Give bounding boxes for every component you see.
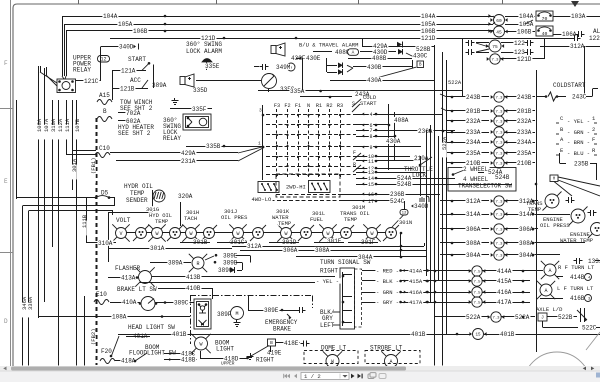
svg-text:2 WHEEL: 2 WHEEL [463,166,489,173]
svg-text:522A: 522A [466,314,481,321]
svg-text:306A: 306A [519,226,534,233]
svg-text:(FB1): (FB1) [90,157,97,174]
svg-text:389E: 389E [223,252,238,259]
svg-text:1: 1 [258,141,261,147]
svg-text:408A: 408A [394,117,409,124]
svg-text:N: N [307,103,310,109]
svg-text:312A: 312A [247,243,262,250]
svg-text:OIL PRESS: OIL PRESS [540,222,570,229]
svg-text:112A: 112A [57,118,64,132]
svg-text:RIGHT: RIGHT [256,357,274,364]
svg-text:LOCK: LOCK [412,172,427,179]
svg-text:12: 12 [100,57,106,63]
svg-text:RELAY: RELAY [163,135,181,142]
svg-text:15: 15 [368,182,374,188]
svg-text:1 / 2: 1 / 2 [304,373,321,380]
svg-text:7.3: 7.3 [495,132,503,136]
svg-text:A: A [352,50,355,56]
svg-text:V: V [119,231,122,237]
svg-text:121C: 121C [84,78,99,85]
svg-text:310A: 310A [98,240,113,247]
svg-text:335D: 335D [193,87,208,94]
svg-text:103A: 103A [571,13,586,20]
svg-text:W: W [236,231,239,237]
svg-text:A: A [389,359,392,365]
svg-text:414A: 414A [409,267,423,274]
svg-text:308A: 308A [466,240,481,247]
svg-text:306A: 306A [466,226,481,233]
svg-text:SEE SHT 2: SEE SHT 2 [118,130,151,137]
svg-text:304A: 304A [466,252,481,259]
svg-text:522A: 522A [441,136,448,150]
svg-text:GRY: GRY [322,315,333,322]
svg-text:312A: 312A [570,43,585,50]
svg-text:AXLE L/D: AXLE L/D [536,306,563,313]
svg-text:122B: 122B [589,35,600,42]
svg-text:243B: 243B [517,94,532,101]
svg-text:121D: 121D [421,35,436,42]
svg-text:414A: 414A [497,268,512,275]
svg-text:COLDSTART: COLDSTART [553,82,586,89]
svg-text:415A: 415A [409,278,423,285]
svg-text:7.5: 7.5 [473,271,481,275]
svg-text:TACH: TACH [184,215,197,222]
svg-text:107A: 107A [43,118,50,132]
svg-text:306A: 306A [283,247,298,254]
svg-text:- RED -: - RED - [376,267,399,274]
svg-text:104A: 104A [103,13,118,20]
svg-text:308A: 308A [519,240,534,247]
svg-text:108A: 108A [36,118,43,132]
svg-text:415A: 415A [497,278,512,285]
svg-text:121D: 121D [517,56,532,63]
svg-text:312A: 312A [466,198,481,205]
svg-text:335F: 335F [192,106,207,113]
svg-text:106B: 106B [517,29,532,36]
svg-text:418A: 418A [121,358,136,365]
svg-text:R F TURN LT: R F TURN LT [558,264,595,271]
svg-text:40: 40 [542,31,548,37]
svg-text:17: 17 [368,199,374,205]
svg-text:11: 11 [368,159,374,165]
svg-text:- BLU -: - BLU - [567,150,590,157]
svg-text:522C: 522C [582,325,597,332]
svg-text:- YEL -: - YEL - [316,278,339,285]
svg-text:HYDR OIL: HYDR OIL [124,183,153,190]
svg-text:F1: F1 [295,103,301,109]
svg-text:105A: 105A [421,21,436,28]
svg-text:SENDER: SENDER [126,197,148,204]
svg-text:7.3: 7.3 [491,59,499,63]
svg-text:105A: 105A [519,21,534,28]
svg-text:243C: 243C [572,94,587,101]
svg-text:TEMP: TEMP [344,216,357,223]
svg-text:7.3: 7.3 [492,317,500,321]
svg-text:BRAKE LT SW: BRAKE LT SW [117,286,157,293]
svg-text:524B: 524B [495,174,510,181]
svg-text:- BLK -: - BLK - [376,278,399,285]
svg-text:A: A [548,268,551,274]
svg-text:389A: 389A [168,260,183,267]
svg-text:389F: 389F [217,311,232,318]
svg-text:401B: 401B [500,331,515,338]
svg-text:45: 45 [496,29,502,35]
svg-text:R: R [353,162,356,168]
svg-text:522A: 522A [448,79,462,86]
svg-text:430B: 430B [367,64,382,71]
svg-text:F: F [353,150,356,156]
svg-text:- GRY -: - GRY - [376,299,399,306]
svg-text:430E: 430E [306,55,321,62]
svg-text:416B: 416B [570,295,585,302]
svg-text:304A: 304A [519,252,534,259]
svg-text:7.5: 7.5 [473,281,481,285]
svg-text:416A: 416A [497,289,512,296]
svg-text:LEFT: LEFT [320,322,335,329]
svg-text:524B: 524B [397,181,412,188]
svg-text:7.5: 7.5 [473,302,481,306]
svg-text:15: 15 [475,334,481,338]
svg-text:E10: E10 [96,291,107,298]
svg-text:7.3: 7.3 [495,243,503,247]
svg-text:416A: 416A [409,289,423,296]
svg-text:430A: 430A [386,138,401,145]
svg-text:B: B [103,108,107,115]
svg-text:360° SWING: 360° SWING [186,41,222,48]
svg-text:235B: 235B [574,160,589,167]
svg-text:524C: 524C [390,198,405,205]
svg-text:9: 9 [369,145,372,151]
svg-text:TEMP: TEMP [528,206,541,213]
svg-text:389A: 389A [152,82,167,89]
svg-text:AL: AL [593,28,600,35]
svg-text:301A: 301A [71,158,78,172]
svg-text:7.3: 7.3 [495,229,503,233]
svg-text:106B: 106B [133,28,148,35]
svg-text:F20: F20 [101,348,112,355]
svg-text:389C: 389C [174,300,189,307]
svg-text:430A: 430A [367,77,382,84]
svg-text:235A: 235A [466,150,481,157]
svg-text:340D: 340D [119,44,134,51]
svg-text:121B: 121B [120,85,135,92]
svg-text:W: W [331,359,334,365]
svg-text:104A: 104A [421,13,436,20]
svg-text:A: A [544,288,547,294]
svg-text:418B: 418B [181,357,196,364]
svg-text:236B: 236B [390,191,405,198]
svg-text:- GRN -: - GRN - [567,129,590,136]
svg-text:D: D [4,318,8,325]
svg-text:410B: 410B [186,285,201,292]
svg-text:232A: 232A [466,118,481,125]
svg-text:(FB2): (FB2) [90,328,97,345]
svg-text:301A: 301A [150,245,165,252]
svg-text:201B: 201B [517,108,532,115]
svg-text:TRANSELECTOR SW: TRANSELECTOR SW [458,183,512,190]
svg-text:F: F [4,60,8,67]
svg-text:243B: 243B [466,94,481,101]
svg-text:- YEL -: - YEL - [567,118,590,125]
svg-text:B: B [270,340,273,346]
svg-text:702A: 702A [126,110,141,117]
svg-text:7.3: 7.3 [495,163,503,167]
svg-text:W: W [370,231,373,237]
svg-text:W: W [199,342,202,348]
svg-text:108A: 108A [112,314,127,321]
svg-text:- BRN -: - BRN - [567,139,590,146]
svg-text:START: START [128,56,146,63]
svg-text:TURN SIGNAL SW: TURN SIGNAL SW [320,259,371,266]
svg-text:408B: 408B [372,55,387,62]
svg-text:W: W [284,231,287,237]
svg-text:12: 12 [402,212,407,216]
svg-text:A15: A15 [99,92,110,99]
svg-text:210B: 210B [517,160,532,167]
svg-text:201B: 201B [466,108,481,115]
svg-text:LIGHT: LIGHT [216,346,234,353]
svg-text:104A: 104A [519,13,534,20]
svg-text:7.3: 7.3 [495,97,503,101]
svg-text:J: J [541,315,544,321]
svg-text:LOCK ALARM: LOCK ALARM [186,48,222,55]
svg-text:111B: 111B [81,214,88,228]
svg-text:R: R [196,261,199,267]
svg-text:F2: F2 [284,103,290,109]
svg-text:TEMP: TEMP [155,218,168,225]
svg-text:335E: 335E [205,63,220,70]
svg-text:232A: 232A [517,118,532,125]
svg-text:7.3: 7.3 [495,121,503,125]
svg-text:8: 8 [369,134,372,140]
svg-text:- GRN -: - GRN - [376,289,399,296]
svg-text:3: 3 [259,108,262,114]
svg-text:S: S [352,101,355,107]
svg-text:70: 70 [542,16,548,22]
svg-text:4WD-LO: 4WD-LO [252,196,273,203]
svg-text:START: START [360,100,377,107]
svg-text:106B: 106B [421,28,436,35]
svg-text:7.3: 7.3 [495,214,503,218]
svg-text:522B: 522B [558,314,573,321]
svg-text:339A: 339A [27,296,34,310]
svg-text:123: 123 [514,49,525,56]
svg-text:301E: 301E [327,238,342,245]
svg-text:314A: 314A [466,211,481,218]
svg-text:W: W [189,231,192,237]
svg-text:TEMP: TEMP [130,190,145,197]
svg-text:308A: 308A [315,247,330,254]
svg-text:430C: 430C [413,53,428,60]
svg-text:BRAKE: BRAKE [273,326,291,333]
svg-text:111A: 111A [64,118,71,132]
svg-text:349M: 349M [276,64,291,71]
svg-text:413A: 413A [121,275,136,282]
svg-text:418E: 418E [284,340,299,347]
svg-text:R2: R2 [326,103,332,109]
svg-text:122: 122 [514,40,525,47]
svg-text:W: W [155,231,158,237]
svg-text:OIL PRES: OIL PRES [221,214,248,221]
svg-text:7.3: 7.3 [495,255,503,259]
svg-text:389B: 389B [223,260,238,267]
svg-text:429A: 429A [181,150,196,157]
svg-text:F3: F3 [274,103,280,109]
svg-text:L F TURN LT: L F TURN LT [557,285,594,292]
svg-text:UPPER: UPPER [221,361,235,367]
svg-text:310A: 310A [50,118,57,132]
svg-text:417A: 417A [409,299,423,306]
svg-text:FUEL: FUEL [310,216,323,223]
svg-text:234A: 234A [466,139,481,146]
svg-text:ACC: ACC [130,77,141,84]
svg-text:F: F [592,136,595,143]
svg-text:231A: 231A [181,158,196,165]
svg-text:M: M [235,311,238,317]
svg-text:TEMP: TEMP [278,220,291,227]
svg-text:414B: 414B [570,274,585,281]
svg-text:419E: 419E [267,350,282,357]
svg-text:7.3: 7.3 [495,201,503,205]
svg-text:234A: 234A [517,139,532,146]
svg-text:389E: 389E [264,307,279,314]
svg-text:401B: 401B [411,331,426,338]
svg-text:121A: 121A [121,68,136,75]
svg-text:105A: 105A [118,21,133,28]
svg-text:C10: C10 [99,145,110,152]
svg-text:401B: 401B [172,331,187,338]
svg-text:E: E [4,178,8,185]
svg-text:2: 2 [592,126,595,133]
svg-text:R3: R3 [337,103,343,109]
svg-text:7.3: 7.3 [495,111,503,115]
svg-text:320A: 320A [178,193,193,200]
svg-text:233A: 233A [517,129,532,136]
svg-text:107B: 107B [74,118,81,132]
svg-text:7.5: 7.5 [473,292,481,296]
svg-text:B/U & TRAVEL ALARM: B/U & TRAVEL ALARM [299,41,358,48]
svg-text:410A: 410A [122,299,137,306]
svg-text:R1: R1 [316,103,322,109]
svg-text:301N: 301N [399,219,412,226]
svg-text:RELAY: RELAY [73,67,91,74]
svg-text:RIGHT: RIGHT [320,268,338,275]
svg-text:417A: 417A [497,299,512,306]
svg-text:4: 4 [369,112,372,118]
svg-text:60: 60 [496,18,502,24]
svg-text:233A: 233A [466,129,481,136]
svg-text:235A: 235A [517,150,532,157]
svg-text:W: W [326,231,329,237]
svg-text:413B: 413B [186,274,201,281]
svg-text:7.3: 7.3 [495,153,503,157]
svg-text:335B: 335B [206,143,221,150]
svg-text:7.3: 7.3 [495,142,503,146]
svg-text:2WD-HI: 2WD-HI [286,183,306,190]
svg-text:HEAD LIGHT SW: HEAD LIGHT SW [128,324,175,331]
svg-text:75: 75 [492,44,498,50]
svg-text:VOLT: VOLT [116,217,131,224]
